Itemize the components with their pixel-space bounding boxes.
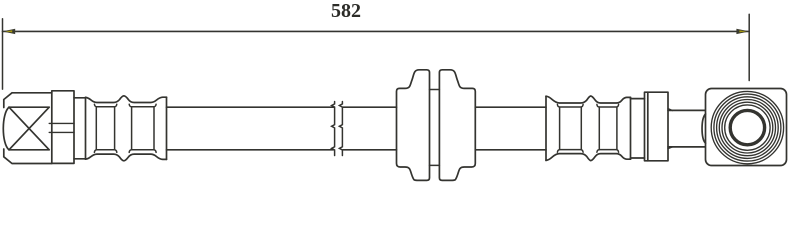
left fitting collar xyxy=(52,91,74,164)
extension line left xyxy=(2,19,4,89)
left fitting X-box xyxy=(9,107,49,150)
svg-text:582: 582 xyxy=(331,0,361,22)
right sleeve bottom outline xyxy=(546,154,631,161)
tube junction ticks xyxy=(668,109,673,149)
banjo boss arc xyxy=(702,114,705,143)
right collar xyxy=(645,92,669,161)
right sleeve top outline xyxy=(546,96,631,103)
extension line right xyxy=(748,14,750,80)
left sleeve crimp band 1 xyxy=(94,104,116,152)
break line left xyxy=(332,102,335,156)
grommet right half xyxy=(439,70,475,181)
left sleeve right edge xyxy=(166,97,168,159)
left sleeve top outline xyxy=(86,96,167,103)
hose segment B top xyxy=(343,106,397,108)
right sleeve crimp band 2 xyxy=(597,104,619,152)
dimension line xyxy=(3,30,750,32)
left fitting round nose arc xyxy=(3,107,9,150)
arrowhead right xyxy=(736,29,749,34)
left sleeve left edge xyxy=(85,97,87,159)
banjo rings xyxy=(711,91,783,163)
tube to banjo xyxy=(668,110,705,146)
left neck xyxy=(74,98,86,159)
right sleeve right edge xyxy=(630,97,632,159)
right neck xyxy=(631,99,645,158)
hose segment C bottom xyxy=(475,149,546,151)
hose segment A bottom xyxy=(167,149,334,151)
left sleeve bottom outline xyxy=(86,154,167,161)
right sleeve left edge xyxy=(545,96,547,160)
left fitting body outline xyxy=(4,93,52,164)
banjo block xyxy=(706,89,787,166)
hose segment A top xyxy=(167,106,334,108)
right collar inner edge xyxy=(647,92,649,161)
break line right xyxy=(339,102,342,156)
right sleeve crimp band 1 xyxy=(557,104,583,152)
left fitting bore lines xyxy=(49,123,74,132)
arrowhead left xyxy=(2,29,15,34)
banjo hole xyxy=(730,110,764,144)
left sleeve crimp band 2 xyxy=(129,104,156,152)
hose segment C top xyxy=(475,106,546,108)
hose segment B bottom xyxy=(343,149,397,151)
grommet slot connectors xyxy=(430,90,440,166)
grommet left half xyxy=(397,70,430,181)
